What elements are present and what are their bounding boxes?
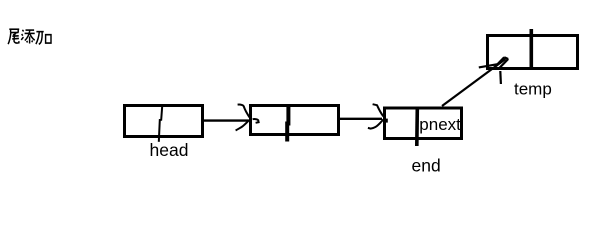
- arrowhead into node3: [368, 104, 384, 128]
- node2 divider (thick, extends below): [287, 106, 288, 142]
- title 尾添加 (hand-traced CJK glyph strokes): [8, 29, 51, 44]
- 添: [22, 30, 23, 32]
- svg-text:pnext: pnext: [419, 115, 461, 134]
- diagonal wire end -> temp: [442, 59, 506, 106]
- svg-text:head: head: [150, 140, 189, 160]
- node box 2: [251, 106, 339, 135]
- svg-text:temp: temp: [514, 80, 552, 99]
- temp node box: [488, 36, 578, 69]
- node box 3 (end): [385, 108, 462, 139]
- svg-text:end: end: [412, 156, 441, 176]
- head divider (hand-drawn): [159, 105, 163, 142]
- wire head -> node2: [203, 119, 248, 121]
- node3 divider (thick, extends below): [415, 109, 419, 146]
- 尾: [9, 28, 19, 30]
- node box head: [125, 106, 203, 137]
- arrowhead into node2: [236, 105, 259, 131]
- diagonal arrowhead (hand-drawn double-stroke): [479, 57, 508, 84]
- wire node2 -> node3: [339, 118, 382, 120]
- temp divider (extends above top): [529, 29, 533, 69]
- 加: [36, 31, 43, 33]
